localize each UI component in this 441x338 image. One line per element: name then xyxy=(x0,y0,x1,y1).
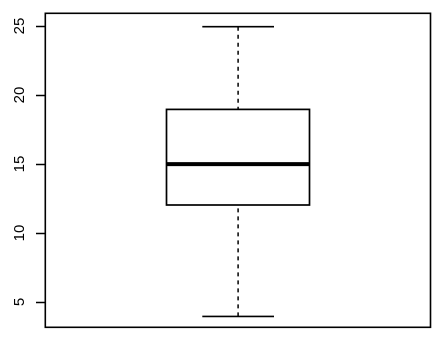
svg-text:10: 10 xyxy=(11,225,28,242)
y tick 20 xyxy=(36,95,45,97)
svg-text:15: 15 xyxy=(11,156,28,173)
y tick 25 xyxy=(36,26,45,28)
svg-text:5: 5 xyxy=(11,298,28,306)
y tick 5 xyxy=(36,302,45,304)
IQR box xyxy=(167,109,310,205)
upper whisker dashed line xyxy=(237,27,239,110)
lower whisker dashed line xyxy=(237,205,239,316)
y tick 10 xyxy=(36,233,45,235)
y tick 15 xyxy=(36,164,45,166)
svg-text:25: 25 xyxy=(11,18,28,35)
median line xyxy=(167,162,310,166)
lower whisker cap xyxy=(202,315,274,317)
upper whisker cap xyxy=(202,26,274,28)
svg-text:20: 20 xyxy=(11,87,28,104)
